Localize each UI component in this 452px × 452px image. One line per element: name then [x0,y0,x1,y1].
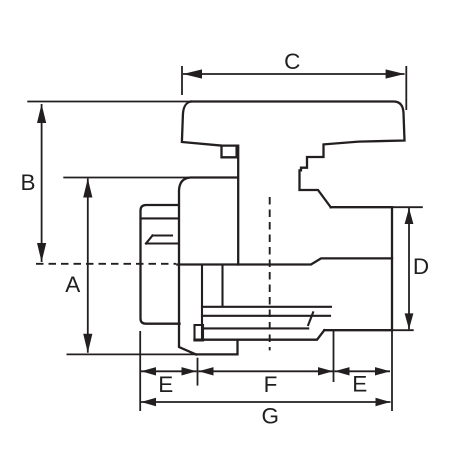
svg-text:G: G [261,404,279,429]
body mid line [177,258,392,264]
dim A [65,179,92,353]
body section verticals [201,265,203,340]
body lower box [195,325,204,341]
union nut (left) [179,178,238,355]
handle notch box [222,146,237,158]
svg-text:E: E [352,372,367,397]
centerline horizontal [36,263,176,265]
body bottom line [195,330,325,340]
dim E left [141,367,197,397]
right port bottom [324,329,392,331]
body bore lines [202,307,331,329]
dim B [20,104,46,262]
dim C [183,49,405,79]
socket thread relief detail [146,236,178,244]
svg-text:E: E [158,372,173,397]
right port face [391,207,393,330]
svg-text:F: F [264,372,278,397]
right port top [331,206,392,208]
dim B extension line [27,101,191,103]
dim A extension lines [63,177,190,179]
dim D [405,208,430,329]
valve handle outline [182,102,405,208]
socket end (left) [141,205,180,324]
centerline vertical [269,197,271,350]
svg-text:D: D [413,254,429,279]
dim extension lines bottom [139,331,141,411]
dim C extension lines [181,66,183,95]
dim D extension lines [392,206,423,208]
dim G [141,398,391,429]
dim E right [335,367,391,396]
svg-text:A: A [65,272,80,297]
svg-text:C: C [284,49,300,74]
dim F [199,367,334,397]
handle stem line [237,146,239,265]
svg-text:B: B [20,170,35,195]
